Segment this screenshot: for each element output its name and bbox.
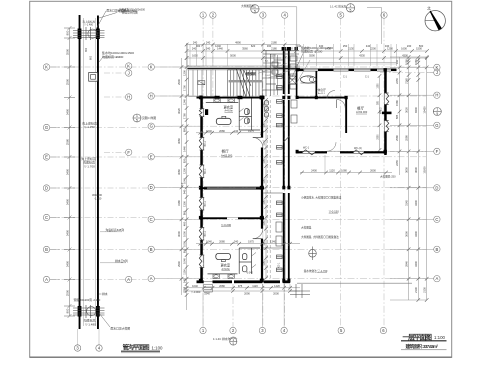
bottom border heavy line	[30, 356, 452, 358]
trench top cross ticks	[73, 27, 105, 40]
svg-text:2180: 2180	[271, 41, 277, 45]
F wall window zigzags	[303, 150, 365, 155]
svg-text:北: 北	[427, 6, 431, 11]
svg-text:1340: 1340	[270, 240, 276, 244]
svg-text:一层平面图: 一层平面图	[403, 332, 433, 341]
svg-text:大样图见图: 大样图见图	[241, 4, 254, 8]
axis bubble B plan-east	[434, 246, 440, 252]
sump pit square near axis4	[289, 76, 297, 84]
column blobs at intersections	[199, 68, 387, 282]
west dim ticks	[180, 65, 184, 69]
svg-text:2255: 2255	[395, 160, 399, 166]
svg-text:▽-0.150: ▽-0.150	[329, 209, 340, 213]
service area marks south	[263, 193, 310, 298]
wall axis4 east leaf	[288, 47, 290, 94]
axis bubble J plan-east	[434, 69, 440, 75]
eave line above east hall	[296, 62, 397, 64]
axis bubble A trench-right	[126, 276, 132, 282]
svg-text:A=63.000: A=63.000	[356, 110, 368, 114]
svg-text:BC-1: BC-1	[204, 200, 207, 206]
svg-text:2580: 2580	[395, 135, 399, 141]
svg-text:2900: 2900	[177, 79, 181, 85]
svg-text:2400: 2400	[311, 169, 317, 173]
WC fixture 1	[245, 109, 249, 115]
toilet stalls suite2	[239, 248, 260, 274]
svg-text:3020: 3020	[177, 108, 181, 114]
svg-text:1580: 1580	[395, 100, 399, 106]
svg-text:2580: 2580	[404, 135, 408, 141]
svg-text:2500: 2500	[65, 78, 69, 85]
svg-text:4990: 4990	[235, 41, 241, 45]
stair mid rail band	[229, 80, 263, 82]
west wall window zigzags BC-1	[199, 109, 204, 268]
axis bubble 6 plan-top	[381, 12, 387, 18]
svg-text:更衣室: 更衣室	[221, 263, 231, 268]
axis bubble 4 bottom trench	[96, 345, 102, 351]
BC-1 labels	[204, 140, 207, 236]
svg-text:585: 585	[395, 114, 399, 119]
top dimension lines	[187, 51, 427, 58]
bottom extension connectors	[187, 284, 290, 292]
svg-text:940: 940	[182, 189, 186, 194]
svg-text:B: B	[150, 247, 153, 252]
wall on axis 3	[261, 99, 263, 138]
axis bubble K plan-west	[148, 64, 154, 70]
svg-text:2130: 2130	[348, 47, 354, 51]
plan west axis bubbles	[148, 64, 186, 282]
svg-text:▽-1.700: ▽-1.700	[84, 164, 95, 168]
svg-text:2090: 2090	[244, 291, 250, 295]
axis bubble G trench-left	[43, 124, 49, 130]
entry steps south	[204, 285, 213, 293]
svg-text:1120: 1120	[252, 284, 258, 288]
rain inlet circle top	[88, 29, 97, 38]
svg-text:1975: 1975	[248, 129, 254, 133]
svg-text:D: D	[435, 185, 438, 190]
svg-text:WC-(2): WC-(2)	[354, 147, 362, 150]
stair up arrow	[244, 71, 251, 87]
leader bracket near axis6	[367, 8, 382, 45]
axis bubble H plan-west	[148, 93, 154, 99]
svg-text:3630: 3630	[414, 167, 418, 173]
svg-text:1975: 1975	[248, 240, 254, 244]
axis bubble 3 bottom trench	[74, 345, 80, 351]
svg-text:3180: 3180	[177, 200, 181, 206]
horizontal axis lines	[160, 67, 434, 279]
svg-text:1200: 1200	[182, 168, 186, 174]
svg-text:坑底标高 -2.200: 坑底标高 -2.200	[301, 49, 323, 54]
axis bubble H plan-east	[434, 92, 440, 98]
svg-text:▽-1.480: ▽-1.480	[85, 323, 96, 327]
axis bubble 1 plan-bottom	[200, 327, 206, 333]
svg-text:排水口5列: 排水口5列	[115, 259, 128, 263]
svg-text:J: J	[436, 70, 438, 75]
svg-text:3500: 3500	[65, 48, 69, 55]
svg-text:1050: 1050	[264, 122, 266, 128]
svg-text:240: 240	[206, 41, 211, 45]
svg-text:1:1.4C 排水沟: 1:1.4C 排水沟	[330, 4, 347, 8]
svg-text:1050: 1050	[264, 240, 266, 246]
axis bubble 3 plan-bottom	[259, 327, 265, 333]
urinals row right of axis3	[265, 101, 269, 118]
svg-text:1580: 1580	[377, 83, 379, 89]
svg-text:1: 1	[136, 114, 138, 118]
axis bubble A plan-east	[434, 276, 440, 282]
east dims upper cluster extra ticks	[407, 58, 411, 62]
column blob axis6-H	[382, 112, 392, 115]
svg-text:BC-1: BC-1	[204, 230, 207, 236]
svg-text:-0.040: -0.040	[246, 271, 253, 274]
axis bubble F trench-right	[126, 149, 132, 155]
svg-text:3400: 3400	[65, 108, 69, 115]
svg-text:3400: 3400	[65, 168, 69, 175]
svg-text:1700: 1700	[182, 85, 186, 91]
svg-text:E: E	[150, 154, 153, 159]
svg-text:1050: 1050	[264, 260, 266, 266]
basin counter suite1	[206, 102, 239, 104]
svg-text:餐厅: 餐厅	[357, 106, 365, 111]
svg-text:900: 900	[85, 47, 88, 52]
svg-text:340: 340	[385, 44, 390, 48]
svg-text:2255: 2255	[395, 78, 399, 84]
svg-text:2080: 2080	[219, 240, 225, 244]
svg-text:G: G	[45, 125, 48, 130]
svg-text:3400: 3400	[414, 231, 418, 237]
svg-text:1050: 1050	[264, 199, 266, 205]
axis bubble B plan-west	[148, 246, 154, 252]
svg-text:C-1: C-1	[343, 76, 348, 79]
door opening H wall gap arc	[327, 91, 335, 99]
svg-text:5: 5	[436, 112, 438, 116]
door arc F wall	[327, 142, 336, 151]
trench bottom axis line 4	[98, 329, 100, 345]
axis bubble E plan-west	[148, 154, 154, 160]
svg-text:2130: 2130	[422, 287, 426, 293]
corridor interior dim line	[265, 100, 267, 278]
courtyard extension line	[324, 155, 326, 173]
note: mid level text 1	[82, 121, 97, 130]
wall axis5 stub	[345, 99, 347, 134]
axis bubble J trench-right	[126, 70, 132, 76]
north arrow	[425, 6, 445, 31]
svg-text:小便器排水, 大样图见〇〇图集做法: 小便器排水, 大样图见〇〇图集做法	[301, 195, 342, 199]
svg-text:1: 1	[350, 4, 352, 8]
axis bubble A plan-west	[148, 276, 154, 282]
stall doors suite1	[239, 109, 243, 113]
svg-text:WC-2: WC-2	[379, 107, 383, 114]
detail callout 1/5 west	[133, 114, 156, 123]
column blob west bathroom	[205, 109, 208, 115]
window band axis D	[204, 187, 262, 189]
east dim ticks	[398, 66, 402, 70]
svg-text:集水坑做法 ▽-1.700: 集水坑做法 ▽-1.700	[304, 269, 328, 273]
door arc axis3 lower	[253, 229, 263, 239]
axis bubble C trench-left	[43, 214, 49, 220]
svg-text:3060: 3060	[177, 169, 181, 175]
svg-text:1050: 1050	[264, 178, 266, 184]
third top dim tier	[187, 44, 300, 46]
svg-text:3000: 3000	[404, 231, 408, 237]
leader to cover note top	[99, 13, 117, 19]
trench axis dash-dot grid lines	[50, 67, 148, 280]
svg-text:2940: 2940	[177, 261, 181, 267]
svg-text:K: K	[127, 64, 130, 69]
svg-text:10450: 10450	[422, 106, 426, 114]
wall on axis H	[197, 97, 265, 99]
drain leader small	[99, 293, 102, 295]
svg-text:1200: 1200	[182, 70, 186, 76]
east dim numbers	[395, 59, 426, 293]
axis bubble F plan-east	[434, 148, 440, 154]
svg-text:2580: 2580	[65, 138, 69, 145]
plan bottom axis bubbles	[200, 327, 387, 333]
misc leader diagonals top	[296, 60, 310, 84]
svg-text:A=9.8m: A=9.8m	[225, 110, 233, 113]
svg-text:F: F	[127, 150, 130, 155]
axis bubble G plan-west	[148, 123, 154, 129]
svg-text:2080: 2080	[219, 129, 225, 133]
svg-text:3020: 3020	[404, 107, 408, 113]
trench wall right bar	[97, 16, 99, 330]
svg-text:1440: 1440	[182, 146, 186, 152]
leader bottom right	[99, 313, 110, 327]
svg-text:楼梯间: 楼梯间	[246, 71, 257, 76]
entry landing box	[198, 81, 205, 85]
svg-text:600: 600	[182, 248, 186, 253]
svg-text:2580: 2580	[377, 134, 379, 140]
basin 3	[213, 274, 219, 278]
svg-text:1050: 1050	[264, 220, 266, 226]
axis bubble 5 plan-top	[338, 12, 344, 18]
svg-text:A: A	[127, 277, 130, 282]
svg-text:2600: 2600	[370, 169, 376, 173]
east dimension lines	[400, 57, 427, 300]
svg-text:8400: 8400	[414, 107, 418, 113]
bottom dimension lines	[183, 288, 300, 291]
wall on axis A	[197, 280, 204, 283]
axis bubble 1 plan-top	[200, 12, 206, 18]
svg-text:600: 600	[90, 55, 93, 60]
detail callout 1/5 east	[433, 108, 441, 117]
svg-text:250: 250	[343, 44, 348, 48]
entry steps west	[189, 70, 216, 97]
fixtures on axis4 corridor	[277, 75, 283, 272]
tub room west wall	[296, 68, 298, 97]
axis bubble C plan-east	[434, 216, 440, 222]
axis bubble K trench-right	[126, 63, 132, 69]
trench axis bubbles left column	[43, 64, 60, 283]
svg-text:5: 5	[254, 10, 256, 14]
descender line axis3/4	[261, 284, 263, 327]
svg-text:大样图集: 大样图集	[301, 226, 312, 230]
svg-text:2500: 2500	[65, 289, 69, 296]
trench bottom axis line 3	[77, 329, 79, 345]
WC fixture 4	[243, 266, 247, 272]
axis bubble 4 plan-bottom	[281, 327, 287, 333]
svg-text:F: F	[436, 149, 439, 154]
trench dim texts	[65, 30, 69, 313]
north edge band of stair block	[187, 65, 300, 67]
service zone clutter	[263, 50, 299, 96]
trench wall bulge bottom-right	[96, 306, 100, 317]
svg-text:1: 1	[436, 108, 438, 112]
svg-text:1420: 1420	[274, 284, 280, 288]
top dim ticks	[185, 49, 189, 53]
leader bracket to wall	[259, 7, 297, 50]
svg-text:1000: 1000	[182, 241, 186, 247]
north wall east hall	[296, 69, 304, 72]
dim row above suite2	[196, 243, 300, 245]
svg-text:3400: 3400	[65, 198, 69, 205]
svg-text:1040: 1040	[182, 258, 186, 264]
svg-text:沟底标高645列: 沟底标高645列	[106, 228, 125, 232]
svg-text:5: 5	[136, 119, 138, 123]
svg-text:300x200: 300x200	[92, 193, 103, 197]
svg-text:C: C	[45, 215, 48, 220]
svg-text:1760: 1760	[182, 113, 186, 119]
svg-text:2180: 2180	[271, 47, 277, 51]
svg-text:排水: 排水	[102, 292, 108, 296]
top extension lines	[187, 44, 396, 66]
axis bubble 2 plan-bottom	[230, 327, 236, 333]
sump leader note top east	[301, 45, 333, 54]
axis bubble E trench-left	[43, 154, 49, 160]
svg-text:K: K	[150, 65, 153, 70]
svg-text:▽-0.900: ▽-0.900	[191, 290, 201, 294]
svg-text:A: A	[436, 276, 439, 281]
svg-text:1650: 1650	[192, 54, 198, 58]
svg-text:A=9.8m: A=9.8m	[222, 268, 230, 271]
svg-text:1100: 1100	[182, 269, 186, 275]
svg-text:460: 460	[182, 221, 186, 226]
svg-text:做法见大样图: 做法见大样图	[122, 10, 138, 14]
wall on axis F	[296, 151, 303, 153]
svg-text:1120: 1120	[329, 169, 335, 173]
svg-text:▽-0.200: ▽-0.200	[221, 223, 232, 227]
svg-text:C: C	[435, 217, 438, 222]
note: top level text	[83, 20, 96, 27]
WC fixture 3	[243, 254, 247, 260]
wall north of stair block	[187, 68, 300, 70]
basin 4	[228, 274, 234, 278]
bathtub suite1	[216, 118, 231, 124]
svg-text:230: 230	[407, 44, 412, 48]
svg-text:H: H	[435, 93, 438, 98]
svg-text:▽-1.480: ▽-1.480	[84, 24, 94, 27]
H wall column blobs	[215, 96, 220, 99]
wall on axis C	[200, 217, 227, 219]
svg-text:440: 440	[366, 44, 371, 48]
svg-text:1240: 1240	[182, 99, 186, 105]
A wall door opening	[204, 280, 264, 282]
trench inner thin lines	[84, 18, 96, 326]
basin counter suite2	[208, 273, 238, 275]
wall axis4 west leaf	[283, 47, 285, 94]
svg-text:3400: 3400	[65, 260, 69, 267]
west dim numbers	[177, 70, 186, 293]
trench wall bulge top-left	[78, 29, 82, 40]
axis bubble 6 plan-bottom	[380, 327, 386, 333]
sump leader line	[292, 54, 303, 78]
svg-text:800: 800	[65, 30, 69, 35]
svg-text:1050: 1050	[404, 59, 408, 65]
sump pit box	[89, 73, 98, 82]
tub room east wall	[316, 71, 318, 97]
svg-text:500: 500	[419, 44, 424, 48]
axis bubble D plan-west	[148, 184, 154, 190]
svg-text:G: G	[150, 124, 153, 129]
basin 1	[214, 98, 220, 102]
top dim numbers	[192, 44, 424, 58]
terrace edge line axis A	[297, 282, 412, 284]
west exterior wall	[200, 99, 203, 109]
svg-text:1000: 1000	[182, 231, 186, 237]
north wall windows C-1	[304, 69, 392, 72]
svg-text:大样图集, 大样图见〇〇图集做法: 大样图集, 大样图见〇〇图集做法	[301, 235, 339, 239]
axis bubble 2 plan-top	[210, 12, 216, 18]
svg-text:K: K	[45, 65, 48, 70]
WC fixture 2	[245, 118, 249, 124]
svg-text:3145: 3145	[404, 200, 408, 206]
toilet stalls suite1	[239, 99, 260, 131]
door arc axis5	[337, 100, 346, 109]
svg-text:4330: 4330	[359, 54, 365, 58]
note: bottom level	[84, 318, 97, 327]
trench dimension line	[64, 26, 75, 318]
axis bubble C plan-west	[148, 216, 154, 222]
svg-text:3560: 3560	[242, 47, 248, 51]
bottom cross ticks	[73, 305, 105, 318]
east dim horizontal connectors	[390, 57, 427, 300]
axis bubble H trench-right	[126, 94, 132, 100]
axis bubble G plan-east	[434, 122, 440, 128]
axis bubble 5 plan-bottom	[338, 327, 344, 333]
axis bubble B trench-left	[43, 246, 49, 252]
svg-text:2940: 2940	[404, 261, 408, 267]
C-1 labels	[307, 76, 370, 79]
trench wall bulge top-right	[96, 29, 100, 40]
interior dim row y133	[196, 132, 264, 134]
svg-text:1: 1	[254, 5, 256, 9]
interior door F wall gap	[327, 150, 340, 152]
svg-text:D: D	[150, 185, 153, 190]
axis bubble 4 plan-top	[282, 12, 288, 18]
service zone extra ticks	[263, 55, 281, 95]
svg-text:B: B	[436, 247, 439, 252]
svg-text:J: J	[128, 71, 130, 76]
svg-text:3000: 3000	[177, 231, 181, 237]
callout circle top axis3	[251, 5, 259, 14]
svg-text:建筑面积: 337.63m²: 建筑面积: 337.63m²	[405, 343, 439, 350]
svg-text:3400: 3400	[65, 229, 69, 236]
svg-text:H: H	[127, 95, 130, 100]
svg-text:1050: 1050	[414, 59, 418, 65]
axis bubble K plan-east	[434, 64, 440, 70]
courtyard dim row	[300, 172, 392, 174]
descender line axis1	[202, 293, 204, 328]
svg-text:5000: 5000	[230, 54, 236, 58]
svg-text:5590: 5590	[309, 54, 315, 58]
callout circle top axis5	[346, 4, 354, 13]
axis bubble A trench-left	[43, 276, 49, 282]
bathtub suite2	[216, 253, 231, 259]
basin 2	[228, 98, 234, 102]
svg-text:975: 975	[238, 284, 243, 288]
svg-text:预留600x200洞 -2.100: 预留600x200洞 -2.100	[74, 298, 101, 302]
svg-text:A=63.000: A=63.000	[221, 153, 233, 157]
svg-text:雨水口见大样图: 雨水口见大样图	[111, 327, 131, 331]
svg-text:680: 680	[182, 127, 186, 132]
